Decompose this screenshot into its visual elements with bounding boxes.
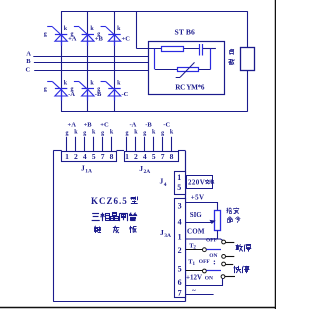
svg-text:7: 7 — [161, 152, 165, 161]
svg-text:3: 3 — [178, 202, 182, 211]
svg-text:220V: 220V — [188, 179, 205, 187]
svg-text:A: A — [26, 51, 31, 58]
svg-text:+B: +B — [84, 121, 93, 128]
svg-text:ON: ON — [209, 253, 217, 259]
svg-text:-A: -A — [130, 121, 137, 128]
svg-text:g: g — [143, 130, 146, 136]
svg-text:g: g — [101, 130, 104, 136]
svg-text:g: g — [66, 130, 69, 136]
svg-text:4: 4 — [178, 217, 182, 226]
svg-text:+5V: +5V — [191, 193, 205, 201]
svg-text:g: g — [44, 86, 47, 92]
svg-text:2: 2 — [134, 152, 138, 161]
svg-text:B: B — [26, 58, 31, 65]
svg-text:g: g — [44, 32, 47, 38]
svg-text:8: 8 — [110, 152, 114, 161]
svg-text:g: g — [71, 32, 74, 38]
svg-text:+A: +A — [68, 121, 77, 128]
svg-text:2: 2 — [74, 152, 78, 161]
svg-text:+12V: +12V — [186, 273, 202, 281]
svg-text:g: g — [83, 130, 86, 136]
svg-text:-C: -C — [122, 91, 129, 98]
svg-text:RC YM*6: RC YM*6 — [175, 83, 205, 91]
svg-text:7: 7 — [178, 289, 182, 298]
svg-text:COM: COM — [187, 227, 205, 235]
svg-text:-B: -B — [145, 121, 152, 128]
svg-text:ST B6: ST B6 — [175, 28, 196, 37]
svg-text:OFF: OFF — [199, 259, 211, 265]
svg-text:C: C — [26, 67, 31, 74]
svg-text:g: g — [97, 32, 100, 38]
svg-text:3A: 3A — [164, 233, 171, 239]
svg-text:KCZ6.5: KCZ6.5 — [91, 196, 128, 206]
svg-text:1: 1 — [178, 233, 182, 242]
svg-text:2: 2 — [178, 246, 182, 255]
svg-text:g: g — [126, 130, 129, 136]
svg-text:OFF: OFF — [206, 238, 218, 244]
svg-text:1A: 1A — [85, 169, 92, 175]
svg-text:5: 5 — [152, 152, 156, 161]
svg-text:+C: +C — [122, 35, 131, 42]
svg-text:5: 5 — [178, 265, 182, 274]
svg-text:5: 5 — [177, 183, 181, 192]
svg-text:g: g — [71, 86, 74, 92]
svg-text:g: g — [97, 86, 100, 92]
svg-text:4: 4 — [83, 152, 87, 161]
svg-text:5: 5 — [92, 152, 96, 161]
svg-text:8: 8 — [170, 152, 174, 161]
svg-text:4: 4 — [143, 152, 147, 161]
svg-text:1: 1 — [125, 152, 129, 161]
svg-text:7: 7 — [101, 152, 105, 161]
svg-text:SIG: SIG — [190, 211, 203, 219]
svg-text:1: 1 — [177, 173, 181, 182]
svg-text:g: g — [161, 130, 164, 136]
svg-text:+C: +C — [100, 121, 109, 128]
svg-text:6: 6 — [178, 278, 182, 287]
svg-text:1: 1 — [65, 152, 69, 161]
svg-text:4: 4 — [164, 182, 167, 188]
svg-text:ON: ON — [205, 275, 213, 281]
svg-text:2A: 2A — [144, 169, 151, 175]
svg-text:-C: -C — [163, 121, 170, 128]
